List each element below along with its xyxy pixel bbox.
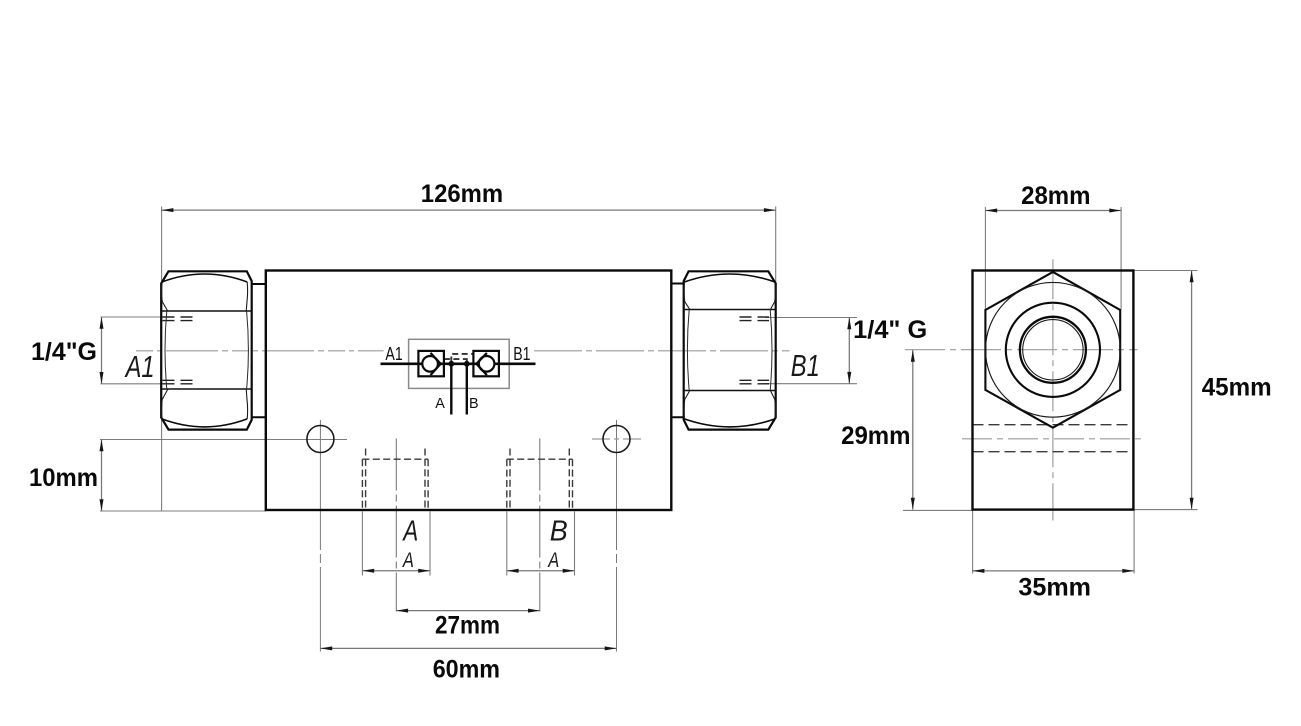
arrow 60mm left <box>320 646 332 650</box>
pilot dashed cross line from left valve <box>444 359 467 363</box>
arrow right 1/4G bottom <box>847 372 851 384</box>
svg-text:A: A <box>547 549 560 572</box>
10mm top extension <box>100 439 347 441</box>
arrow 27mm right <box>528 609 540 613</box>
arrow 1/4G bottom <box>100 372 104 384</box>
pilot dashed cross line to right valve <box>451 354 473 363</box>
slot A hidden outline <box>361 459 363 510</box>
left hex corner connectors <box>161 282 247 419</box>
main horizontal centerline left segment <box>136 350 384 352</box>
60mm dimension line <box>320 647 616 649</box>
arrow 28mm left <box>985 209 997 213</box>
arrow 27mm left <box>396 609 408 613</box>
right collar <box>671 284 683 418</box>
left hex fitting outline <box>161 271 252 429</box>
slot A centerline <box>395 439 397 612</box>
29mm bottom extension <box>903 509 973 511</box>
right hex thread marks <box>740 316 770 318</box>
valve body <box>266 271 672 511</box>
left hex bottom face arc <box>162 419 247 427</box>
arrow 60mm right <box>605 646 617 650</box>
right bolt hole vertical centerline <box>616 420 618 652</box>
1/4G left dimension line <box>101 317 103 384</box>
svg-text:10mm: 10mm <box>29 464 98 492</box>
slot B dim extensions <box>506 512 508 576</box>
svg-text:A: A <box>402 516 419 548</box>
1/4G left top extension <box>101 316 165 318</box>
right view body rect <box>973 271 1134 510</box>
svg-text:A1: A1 <box>385 344 402 364</box>
10mm dimension line <box>101 440 103 512</box>
126mm dimension line <box>162 209 776 211</box>
29mm dimension line <box>912 350 914 510</box>
arrow 10mm bottom <box>100 499 104 511</box>
right view hex inscribed circle <box>986 282 1121 417</box>
right check valve seat <box>476 353 487 375</box>
arrow slotB right <box>563 569 575 573</box>
right bolt hole horizontal centerline <box>592 438 644 440</box>
arrow 126mm right <box>764 208 776 212</box>
right hex facet lines <box>684 310 776 391</box>
left bolt hole <box>307 426 334 453</box>
right view thread circle <box>1023 320 1083 380</box>
svg-text:B: B <box>550 516 568 548</box>
svg-text:28mm: 28mm <box>1021 182 1090 210</box>
right view vertical centerline <box>1052 259 1054 520</box>
schematic outer box <box>409 339 510 388</box>
arrow slotA left <box>362 569 374 573</box>
svg-text:35mm: 35mm <box>1018 574 1091 602</box>
svg-text:B1: B1 <box>513 344 530 364</box>
arrow 45mm top <box>1190 271 1194 283</box>
left hex facet lines <box>161 311 252 389</box>
right hex middle face edge arcs <box>687 310 772 391</box>
svg-text:60mm: 60mm <box>433 656 500 684</box>
left collar <box>252 284 266 417</box>
arrow 35mm left <box>973 569 985 573</box>
35mm dimension line <box>973 570 1135 572</box>
arrow 10mm top <box>100 440 104 452</box>
126mm right extension <box>775 207 777 284</box>
right hex corner connectors <box>684 282 775 419</box>
svg-text:126mm: 126mm <box>421 180 503 208</box>
slot B small dim line <box>507 570 575 572</box>
svg-text:1/4"G: 1/4"G <box>31 338 97 366</box>
right hex top face arc <box>684 274 775 282</box>
arrow 45mm bottom <box>1190 498 1194 510</box>
arrow 29mm bottom <box>911 498 915 510</box>
main horizontal centerline right segment <box>534 350 790 352</box>
left hex top face arc <box>162 274 247 282</box>
left hex thread marks <box>163 316 198 318</box>
arrow 29mm top <box>911 350 915 362</box>
left hex middle face edge arcs <box>165 311 248 389</box>
svg-text:27mm: 27mm <box>435 612 500 640</box>
right view horizontal centerline <box>905 349 1138 351</box>
svg-text:B1: B1 <box>791 348 820 383</box>
28mm extensions <box>984 207 986 310</box>
right check valve box <box>473 351 499 376</box>
right 1/4 G top extension <box>765 317 857 319</box>
right hex fitting outline <box>684 271 776 429</box>
10mm bottom extension <box>100 510 266 512</box>
right bolt hole <box>603 426 630 453</box>
arrow 126mm left <box>162 208 174 212</box>
1/4G left bottom extension <box>101 383 165 385</box>
svg-text:A1: A1 <box>124 349 155 384</box>
right 1/4 G dimension line <box>848 318 850 384</box>
left bolt hole vertical centerline <box>319 420 321 652</box>
left check valve box <box>418 351 444 376</box>
arrow 28mm right <box>1109 209 1121 213</box>
svg-text:1/4" G: 1/4" G <box>853 316 927 344</box>
arrow slotA right <box>418 569 430 573</box>
slot B hidden outline <box>506 459 508 510</box>
svg-text:A: A <box>435 395 445 412</box>
right view cross hole hidden lines <box>973 424 1134 426</box>
arrow right 1/4G top <box>847 318 851 330</box>
right view hex nut <box>985 272 1120 428</box>
junction dot B <box>464 361 470 367</box>
svg-text:A: A <box>401 549 414 572</box>
right hex bottom face arc <box>684 419 775 427</box>
pilot line A <box>450 364 452 415</box>
junction dot A <box>448 361 454 367</box>
pilot line B <box>466 364 468 415</box>
left check valve ball <box>422 356 438 372</box>
27mm dimension line <box>396 610 540 612</box>
arrow slotB left <box>507 569 519 573</box>
35mm extensions <box>972 510 974 574</box>
schematic main A1-B1 line <box>381 362 536 365</box>
right view cross-hole centerline <box>962 438 1143 440</box>
slot B centerline <box>539 439 541 612</box>
right check valve ball <box>479 356 495 372</box>
svg-text:29mm: 29mm <box>841 422 910 450</box>
svg-text:B: B <box>469 395 479 412</box>
28mm dimension line <box>985 210 1121 212</box>
right 1/4 G bottom extension <box>765 383 857 385</box>
45mm extensions <box>1133 270 1197 272</box>
126mm left extension <box>161 207 163 512</box>
svg-text:45mm: 45mm <box>1202 374 1272 402</box>
slot A small dim line <box>362 570 430 572</box>
slot A dim extensions <box>361 512 363 576</box>
right view counterbore circle <box>1006 303 1100 397</box>
45mm dimension line <box>1191 271 1193 510</box>
right view bore circle <box>1020 317 1086 383</box>
arrow 35mm right <box>1122 569 1134 573</box>
left check valve seat <box>431 353 441 375</box>
arrow 1/4G top <box>100 317 104 329</box>
